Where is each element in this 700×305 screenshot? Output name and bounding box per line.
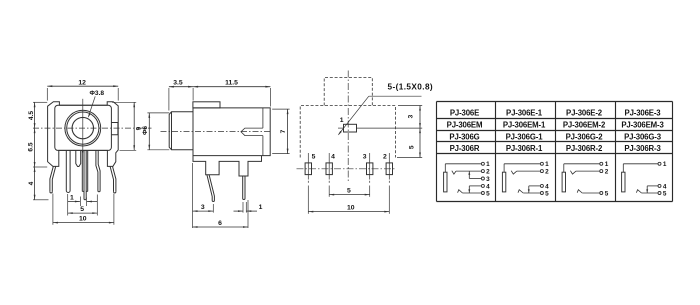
svg-text:PJ-306EM-2: PJ-306EM-2 — [563, 121, 606, 130]
svg-text:PJ-306EM-3: PJ-306EM-3 — [621, 121, 664, 130]
svg-text:PJ-306E-2: PJ-306E-2 — [566, 109, 603, 118]
svg-text:PJ-306E-3: PJ-306E-3 — [625, 109, 662, 118]
svg-text:10: 10 — [79, 216, 87, 223]
svg-text:PJ-306R-2: PJ-306R-2 — [566, 144, 603, 153]
svg-text:4: 4 — [28, 181, 35, 185]
svg-text:5: 5 — [347, 188, 351, 195]
svg-text:3: 3 — [201, 204, 205, 211]
svg-text:2: 2 — [605, 169, 609, 176]
svg-text:PJ-306EM: PJ-306EM — [447, 121, 483, 130]
svg-text:2: 2 — [486, 169, 490, 176]
svg-text:5: 5 — [605, 190, 609, 197]
svg-text:5: 5 — [663, 190, 667, 197]
svg-text:Φ6: Φ6 — [142, 126, 149, 135]
svg-text:5: 5 — [80, 206, 84, 213]
svg-text:3: 3 — [363, 153, 367, 160]
svg-text:4: 4 — [331, 153, 335, 160]
svg-text:PJ-306R: PJ-306R — [450, 144, 480, 153]
svg-text:3: 3 — [486, 176, 490, 183]
svg-text:1: 1 — [340, 117, 344, 124]
svg-text:5: 5 — [312, 153, 316, 160]
svg-text:10: 10 — [347, 205, 355, 212]
svg-text:12: 12 — [78, 79, 86, 86]
svg-text:1: 1 — [70, 195, 74, 202]
svg-text:4.5: 4.5 — [28, 111, 35, 120]
svg-text:PJ-306G-1: PJ-306G-1 — [506, 132, 544, 141]
svg-text:1: 1 — [486, 161, 490, 168]
svg-text:1: 1 — [605, 161, 609, 168]
svg-text:6.5: 6.5 — [28, 142, 35, 151]
svg-text:PJ-306E: PJ-306E — [450, 109, 479, 118]
svg-text:11.5: 11.5 — [225, 80, 238, 87]
svg-text:5: 5 — [408, 145, 415, 149]
svg-text:7: 7 — [280, 129, 287, 133]
svg-text:1: 1 — [259, 204, 263, 211]
svg-text:5: 5 — [486, 190, 490, 197]
svg-text:2: 2 — [383, 153, 387, 160]
svg-text:3: 3 — [407, 114, 414, 118]
svg-text:5-(1.5X0.8): 5-(1.5X0.8) — [388, 83, 434, 92]
svg-text:4: 4 — [545, 183, 549, 190]
svg-text:Φ3.8: Φ3.8 — [90, 90, 105, 97]
svg-text:1: 1 — [545, 161, 549, 168]
svg-text:4: 4 — [486, 183, 490, 190]
svg-text:PJ-306R-1: PJ-306R-1 — [506, 144, 543, 153]
svg-text:2: 2 — [545, 169, 549, 176]
svg-text:PJ-306G-2: PJ-306G-2 — [566, 132, 604, 141]
svg-text:5: 5 — [545, 190, 549, 197]
svg-text:PJ-306G-3: PJ-306G-3 — [624, 132, 662, 141]
svg-text:1: 1 — [663, 161, 667, 168]
svg-text:4: 4 — [663, 183, 667, 190]
svg-text:6: 6 — [218, 220, 222, 227]
svg-text:3.5: 3.5 — [173, 80, 183, 87]
svg-text:PJ-306EM-1: PJ-306EM-1 — [503, 121, 546, 130]
svg-text:PJ-306R-3: PJ-306R-3 — [624, 144, 661, 153]
svg-text:PJ-306E-1: PJ-306E-1 — [506, 109, 543, 118]
svg-text:PJ-306G: PJ-306G — [449, 132, 479, 141]
